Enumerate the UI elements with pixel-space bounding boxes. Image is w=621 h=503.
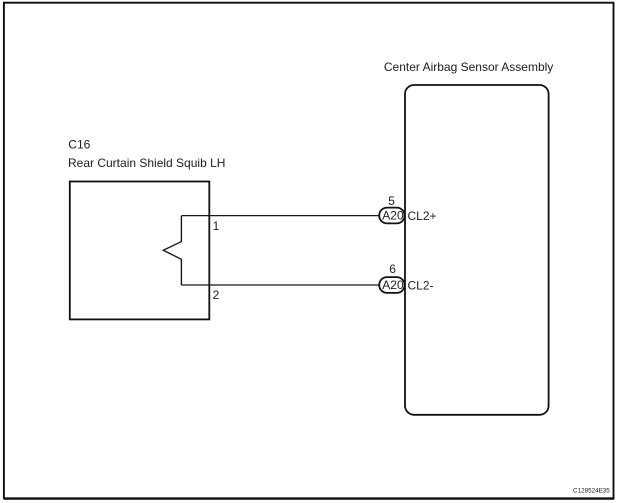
svg-text:A20: A20	[382, 278, 404, 292]
ECU box Center Airbag Sensor Assembly	[405, 85, 549, 415]
net label CL2+	[408, 209, 437, 223]
pin number 6	[389, 262, 396, 276]
squib (inflator) symbol inside C16	[163, 216, 181, 285]
pin number 1	[213, 219, 220, 233]
svg-text:Rear Curtain Shield Squib LH: Rear Curtain Shield Squib LH	[68, 156, 225, 170]
label C16	[68, 137, 90, 151]
svg-text:6: 6	[389, 262, 396, 276]
net label CL2-	[408, 278, 434, 292]
svg-text:CL2-: CL2-	[408, 278, 434, 292]
figure code C128524E35	[573, 487, 610, 494]
label Center Airbag Sensor Assembly	[384, 60, 553, 74]
terminal A20 pin 6	[379, 277, 404, 293]
svg-text:5: 5	[388, 194, 395, 208]
wire pin1 to A20-5	[181, 215, 379, 217]
svg-text:2: 2	[213, 288, 220, 302]
svg-text:A20: A20	[382, 209, 404, 223]
wire pin2 to A20-6	[181, 284, 379, 286]
connector box C16	[70, 182, 210, 320]
svg-text:1: 1	[213, 219, 220, 233]
terminal A20 pin 5	[379, 208, 404, 224]
pin number 2	[213, 288, 220, 302]
svg-text:CL2+: CL2+	[408, 209, 437, 223]
svg-text:C128524E35: C128524E35	[573, 487, 610, 494]
svg-text:C16: C16	[68, 137, 90, 151]
svg-text:Center Airbag Sensor Assembly: Center Airbag Sensor Assembly	[384, 60, 553, 74]
label Rear Curtain Shield Squib LH	[68, 156, 225, 170]
pin number 5	[388, 194, 395, 208]
